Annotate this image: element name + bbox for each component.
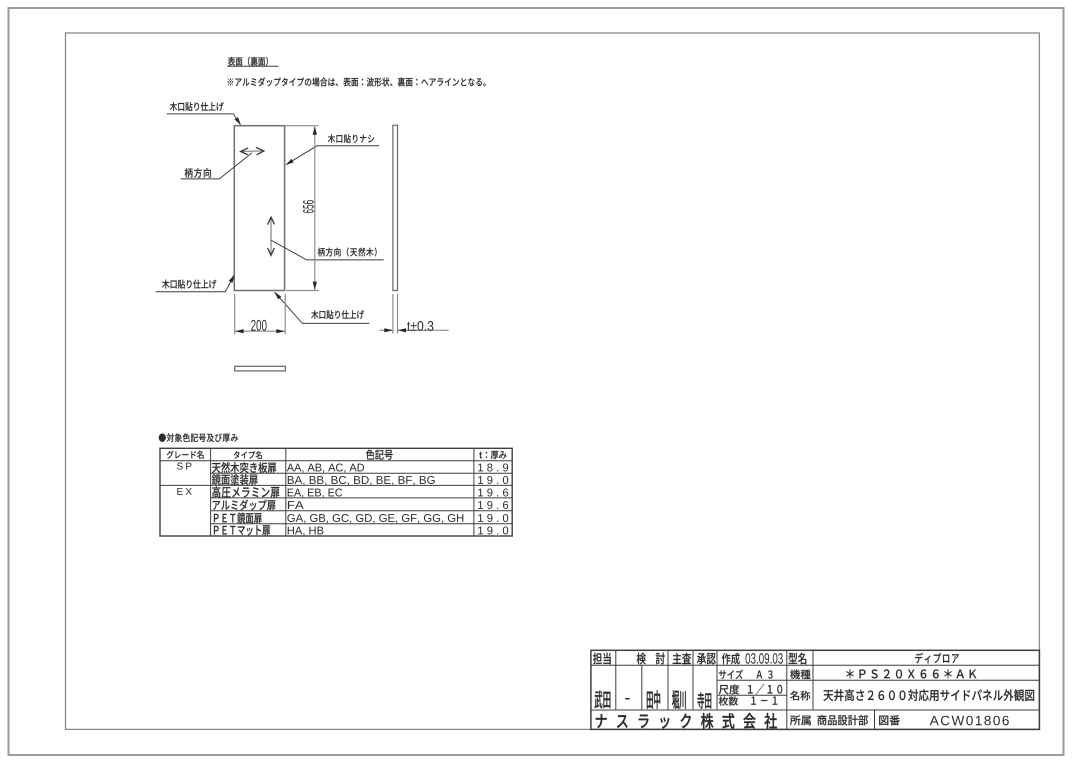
table cell SP [177, 463, 192, 470]
leader 柄方向 [181, 153, 252, 179]
dimension text t±0.3 [407, 321, 433, 331]
title block grid [591, 650, 1040, 729]
color table grid [160, 448, 512, 536]
dimension 200 line [235, 330, 285, 332]
table cell PETマット扉 [214, 525, 270, 535]
title value 商品設計部 [817, 715, 867, 725]
table header グレード名 [167, 451, 204, 459]
note ※アルミダップタイプの場合は、表面：波形状、裏面：ヘアラインとなる。 [228, 77, 486, 86]
table cell BA, BB, BC, BD, BE, BF, BG [288, 476, 435, 485]
table cell GA, GB, GC, GD, GE, GF, GG, GH [287, 514, 463, 523]
table cell 高圧メラミン扉 [212, 486, 279, 498]
title サイズ [719, 670, 743, 679]
label 木口貼りナシ [328, 134, 374, 143]
table cell t value 19.6 [478, 501, 508, 509]
title 検討 [637, 653, 665, 665]
title value Ａ３ [756, 670, 772, 678]
table header 色記号 [366, 449, 393, 459]
leader 柄方向（天然木） [271, 240, 383, 260]
dimension 656 line [314, 127, 316, 290]
table cell EA, EB, EC [288, 489, 342, 498]
table cell AA, AB, AC, AD [287, 464, 364, 473]
grain direction vertical double arrow [270, 218, 272, 256]
stamp 武田 [595, 691, 611, 709]
table cell PET鏡面扉 [214, 513, 262, 524]
title value ディプロア [915, 653, 959, 664]
title value ACW01806 [930, 716, 1009, 726]
dimension 656 extension lines [285, 125, 319, 127]
dimension text 200 [251, 320, 267, 331]
stamp - [625, 698, 630, 700]
leader 木口貼りナシ [287, 146, 379, 164]
stamp 堀川 [672, 690, 686, 709]
title 型名 [789, 653, 807, 665]
table cell t value 19.0 [478, 514, 508, 522]
table cell アルミダップ扉 [213, 500, 276, 511]
company ナスラック株式会社 [596, 713, 777, 729]
title value 天井高さ２６００対応用サイドパネル外観図 [823, 689, 1034, 701]
title 承認 [697, 653, 716, 664]
table cell t value 19.6 [478, 489, 508, 497]
stamp 田中 [647, 690, 660, 709]
table header タイプ名 [234, 451, 262, 459]
title date 03.09.03 [745, 653, 782, 664]
table cell t value 18.9 [478, 464, 508, 472]
title value １／１０ [748, 684, 782, 695]
title 図番 [879, 715, 900, 725]
table cell FA [288, 501, 304, 509]
table cell HA, HB [288, 527, 324, 536]
title 枚数 [719, 696, 739, 705]
title value １－１ [751, 696, 777, 704]
stamp 寺田 [697, 692, 711, 709]
note title 表面（裏面） [228, 57, 268, 66]
dimension t±0.3 extension lines [392, 294, 394, 334]
panel side view (thin) [393, 125, 398, 290]
dimension t±0.3 line [380, 329, 393, 331]
title value ＊ＰＳ２０Ｘ６６＊ＡＫ [846, 669, 976, 678]
leader 木口貼り仕上げ (bottom) [275, 292, 369, 323]
table header t：厚み [479, 451, 506, 459]
table cell t value 19.0 [478, 527, 508, 535]
leader 木口貼り仕上げ (top) [167, 114, 241, 125]
label 木口貼り仕上げ (top) [170, 102, 224, 111]
dimension text 656 [303, 200, 314, 213]
table title ●対象色記号及び厚み [159, 433, 238, 442]
label 木口貼り仕上げ (left) [162, 280, 216, 289]
grain direction horizontal double arrow [241, 150, 264, 153]
table cell t value 19.0 [478, 476, 508, 484]
table cell 天然木突き板扉 [212, 462, 276, 473]
table cell EX [177, 488, 191, 495]
title 主査 [673, 653, 691, 665]
title 名称 [790, 691, 810, 701]
label 柄方向 [185, 168, 211, 178]
leader 木口貼り仕上げ (left) [156, 276, 234, 292]
label 柄方向（天然木） [318, 248, 377, 257]
table cell 鏡面塗装扉 [212, 474, 258, 485]
panel front view rectangle [234, 126, 284, 291]
title 所属 [790, 715, 811, 725]
title 機種 [790, 669, 810, 679]
title 作成 [722, 653, 740, 665]
dimension 200 extension lines [234, 294, 236, 334]
label 木口貼り仕上げ (bottom) [311, 310, 364, 319]
title 尺度 [719, 685, 740, 695]
title 担当 [593, 653, 611, 665]
panel top view (thin) [235, 366, 286, 371]
